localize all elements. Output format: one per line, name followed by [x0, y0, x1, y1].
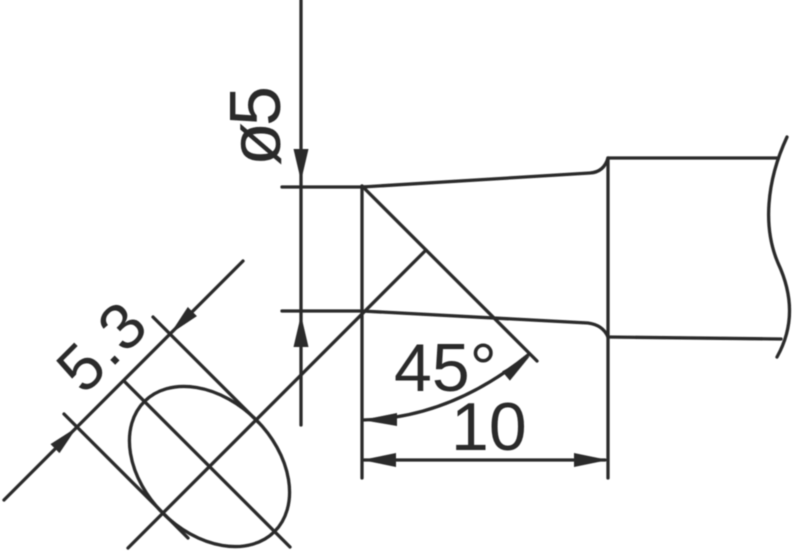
svg-text:5.3: 5.3	[42, 286, 162, 406]
svg-text:ø5: ø5	[216, 86, 296, 166]
svg-text:10: 10	[451, 389, 527, 465]
